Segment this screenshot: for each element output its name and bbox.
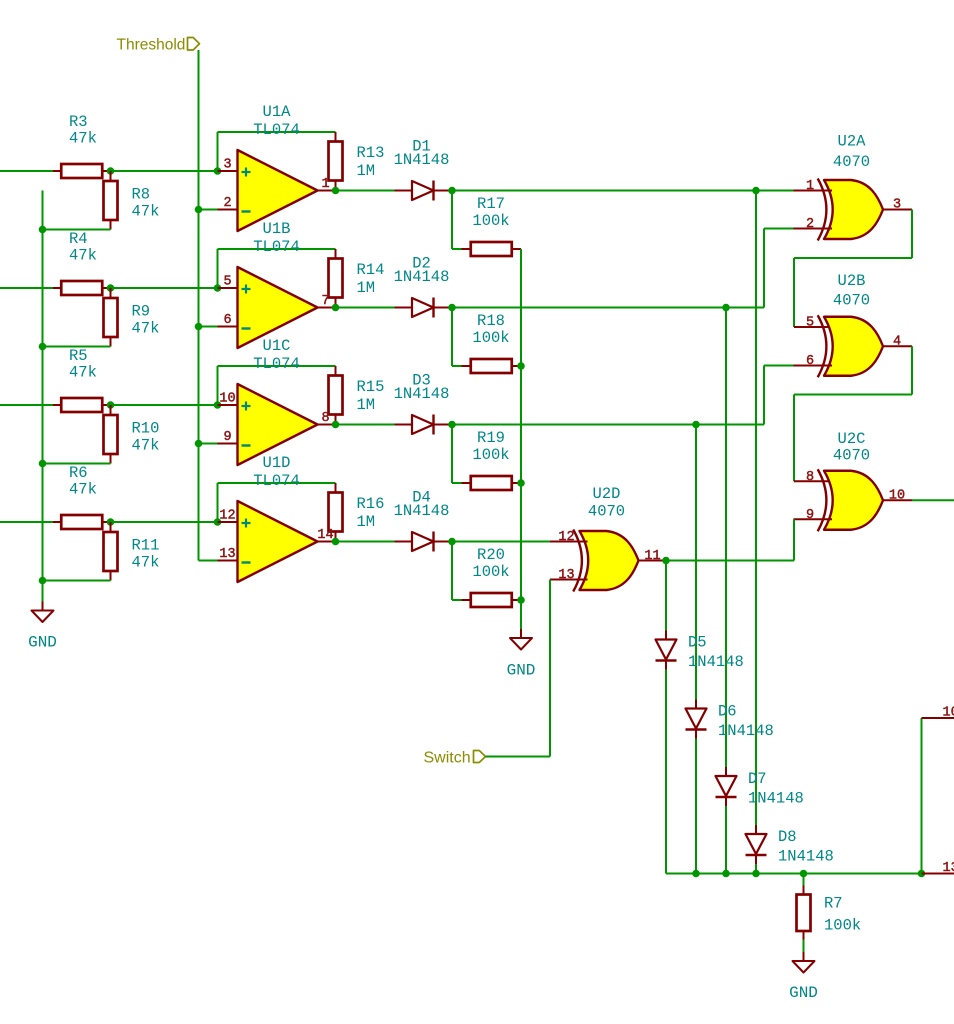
svg-text:R16: R16 xyxy=(357,495,385,513)
svg-text:R3: R3 xyxy=(69,113,88,131)
svg-text:D7: D7 xyxy=(748,770,767,788)
svg-text:47k: 47k xyxy=(132,554,160,572)
svg-text:TL074: TL074 xyxy=(253,472,300,490)
svg-text:1N4148: 1N4148 xyxy=(748,790,804,808)
svg-text:100k: 100k xyxy=(472,446,509,464)
svg-text:1N4148: 1N4148 xyxy=(394,385,450,403)
svg-text:1M: 1M xyxy=(357,396,376,414)
svg-text:R14: R14 xyxy=(357,261,385,279)
svg-text:1N4148: 1N4148 xyxy=(688,653,744,671)
svg-text:U2D: U2D xyxy=(593,485,621,503)
svg-text:U2B: U2B xyxy=(838,272,866,290)
svg-text:12: 12 xyxy=(219,508,235,523)
svg-text:R4: R4 xyxy=(69,230,88,248)
svg-text:1N4148: 1N4148 xyxy=(394,502,450,520)
svg-text:2: 2 xyxy=(806,217,814,232)
svg-text:47k: 47k xyxy=(69,481,97,499)
svg-text:100k: 100k xyxy=(824,917,861,935)
svg-text:10: 10 xyxy=(219,391,235,406)
svg-text:Switch: Switch xyxy=(424,749,471,766)
svg-text:4070: 4070 xyxy=(588,503,625,521)
svg-text:U2A: U2A xyxy=(838,133,867,151)
svg-text:13: 13 xyxy=(943,861,954,876)
svg-text:1: 1 xyxy=(321,177,329,192)
svg-text:U1D: U1D xyxy=(263,454,291,472)
svg-text:U1A: U1A xyxy=(263,103,292,121)
svg-text:1M: 1M xyxy=(357,279,376,297)
svg-text:4: 4 xyxy=(893,334,901,349)
svg-text:47k: 47k xyxy=(132,437,160,455)
svg-text:TL074: TL074 xyxy=(253,121,300,139)
svg-text:U1C: U1C xyxy=(263,337,291,355)
svg-text:8: 8 xyxy=(806,470,814,485)
svg-text:100k: 100k xyxy=(472,212,509,230)
svg-text:R8: R8 xyxy=(132,186,151,204)
svg-text:6: 6 xyxy=(223,313,231,328)
svg-text:1N4148: 1N4148 xyxy=(394,268,450,286)
svg-text:47k: 47k xyxy=(132,203,160,221)
svg-text:D5: D5 xyxy=(688,634,707,652)
svg-text:1M: 1M xyxy=(357,162,376,180)
svg-text:5: 5 xyxy=(806,315,814,330)
svg-text:R6: R6 xyxy=(69,464,88,482)
svg-text:6: 6 xyxy=(806,354,814,369)
svg-text:TL074: TL074 xyxy=(253,355,300,373)
svg-text:1: 1 xyxy=(806,179,814,194)
svg-text:13: 13 xyxy=(219,547,235,562)
svg-text:4070: 4070 xyxy=(833,153,870,171)
svg-text:47k: 47k xyxy=(69,364,97,382)
svg-text:47k: 47k xyxy=(69,130,97,148)
svg-text:R5: R5 xyxy=(69,347,88,365)
svg-text:9: 9 xyxy=(806,508,814,523)
svg-text:47k: 47k xyxy=(132,320,160,338)
svg-text:7: 7 xyxy=(321,294,329,309)
svg-text:R13: R13 xyxy=(357,144,385,162)
svg-text:4070: 4070 xyxy=(833,292,870,310)
svg-text:11: 11 xyxy=(644,549,660,564)
svg-text:10: 10 xyxy=(943,705,954,720)
svg-text:2: 2 xyxy=(223,196,231,211)
svg-text:R18: R18 xyxy=(477,312,505,330)
svg-text:GND: GND xyxy=(28,633,57,651)
svg-text:U1B: U1B xyxy=(263,220,291,238)
svg-text:GND: GND xyxy=(507,661,536,679)
svg-text:1N4148: 1N4148 xyxy=(718,722,774,740)
svg-text:GND: GND xyxy=(789,984,818,1002)
svg-text:47k: 47k xyxy=(69,247,97,265)
svg-text:14: 14 xyxy=(317,528,333,543)
svg-text:R7: R7 xyxy=(824,895,843,913)
svg-text:R15: R15 xyxy=(357,378,385,396)
svg-text:R17: R17 xyxy=(477,195,505,213)
svg-text:R10: R10 xyxy=(132,420,160,438)
svg-text:R9: R9 xyxy=(132,303,151,321)
svg-text:Threshold: Threshold xyxy=(117,37,186,54)
svg-text:R20: R20 xyxy=(477,546,505,564)
svg-text:3: 3 xyxy=(893,197,901,212)
svg-text:12: 12 xyxy=(558,530,574,545)
svg-text:3: 3 xyxy=(223,157,231,172)
svg-text:13: 13 xyxy=(558,568,574,583)
svg-text:100k: 100k xyxy=(472,329,509,347)
svg-text:100k: 100k xyxy=(472,563,509,581)
svg-text:10: 10 xyxy=(889,488,905,503)
svg-text:R19: R19 xyxy=(477,429,505,447)
svg-text:R11: R11 xyxy=(132,537,160,555)
svg-text:TL074: TL074 xyxy=(253,238,300,256)
svg-text:1N4148: 1N4148 xyxy=(394,151,450,169)
svg-text:1N4148: 1N4148 xyxy=(778,848,834,866)
svg-text:9: 9 xyxy=(223,430,231,445)
svg-text:4070: 4070 xyxy=(833,447,870,465)
svg-text:5: 5 xyxy=(223,274,231,289)
svg-text:U2C: U2C xyxy=(838,430,866,448)
svg-text:D6: D6 xyxy=(718,703,737,721)
svg-text:D8: D8 xyxy=(778,828,797,846)
svg-text:1M: 1M xyxy=(357,513,376,531)
svg-text:8: 8 xyxy=(321,411,329,426)
